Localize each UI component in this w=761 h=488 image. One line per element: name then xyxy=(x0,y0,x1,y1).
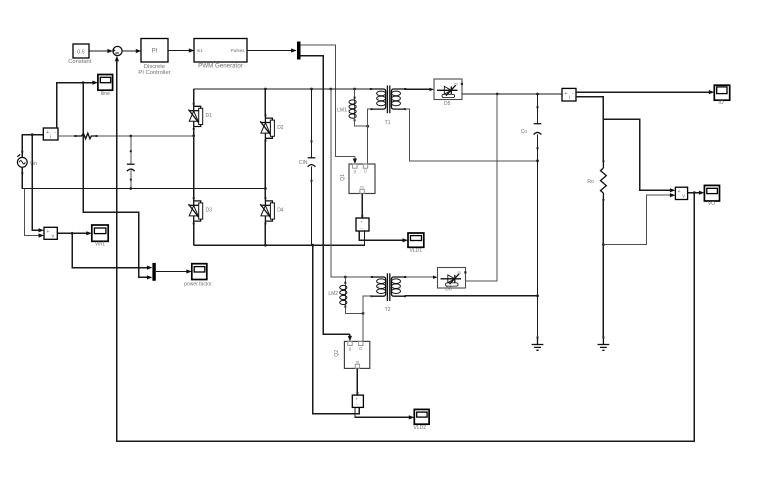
wire constant to sum xyxy=(89,49,113,53)
node D4 bottom xyxy=(264,244,267,247)
wire v+ output to scope Vin1 xyxy=(57,231,92,235)
svg-text:m: m xyxy=(454,81,458,86)
svg-text:D1: D1 xyxy=(206,113,213,119)
wire D5 output rail to Io measure xyxy=(462,93,562,95)
wire gate2: demux to Q2 gate xyxy=(301,56,353,342)
diode D3 xyxy=(189,197,213,224)
transformer T2 xyxy=(370,273,406,313)
svg-text:--: -- xyxy=(360,226,363,231)
bridge left leg wires xyxy=(193,89,195,245)
wire PWM to demux xyxy=(247,48,297,52)
bridge top rail xyxy=(194,88,371,90)
node LM2 return join xyxy=(362,312,365,315)
scope VDS2 xyxy=(414,409,430,430)
svg-text:Co: Co xyxy=(521,129,528,135)
svg-text:T2: T2 xyxy=(385,307,391,313)
svg-text:-: - xyxy=(54,130,56,136)
node filter-cap bottom on middle rail xyxy=(129,187,132,190)
node LM2 tap xyxy=(344,276,347,279)
node LM1 top xyxy=(353,88,356,91)
svg-text:VLD2: VLD2 xyxy=(414,425,427,431)
svg-text:Q2: Q2 xyxy=(334,350,340,357)
wire Io signal to scope IO xyxy=(576,90,714,94)
svg-text:IO: IO xyxy=(718,100,723,106)
svg-text:Ro: Ro xyxy=(587,179,594,185)
ground (secondary return) xyxy=(532,337,544,351)
wire T1 secondary top to D5 xyxy=(406,88,434,91)
svg-text:0.5: 0.5 xyxy=(77,50,85,56)
svg-text:Vin: Vin xyxy=(30,161,37,167)
middle rail (source return to D2/D4) xyxy=(24,188,265,190)
series resistor R xyxy=(74,133,97,139)
bridge bottom rail xyxy=(194,231,365,245)
inductor LM1 xyxy=(337,89,368,126)
wire source bottom to middle rail xyxy=(22,167,24,188)
scope Iline xyxy=(98,75,113,97)
wire Vo output to scope VO xyxy=(688,191,705,195)
svg-text:In1: In1 xyxy=(197,48,204,53)
inductor LM2 xyxy=(328,277,363,313)
wire T2 primary bottom to Q2 drain xyxy=(363,296,372,341)
wire gate1: demux to Q1 gate xyxy=(301,45,358,164)
node T2 feed xyxy=(329,88,332,91)
node D1/D3 midpoint xyxy=(192,134,195,137)
v+ voltage measurement block Vin1 xyxy=(44,227,57,239)
constant block "0.5" Constant xyxy=(68,44,92,65)
mux bar (power factor) xyxy=(152,263,155,281)
wire resistor to bridge left-leg node xyxy=(97,135,194,137)
op block PI (Discrete PI Controller) xyxy=(138,39,170,76)
MOSFET block Q1 xyxy=(340,164,375,194)
scope VDS1 xyxy=(408,233,424,254)
svg-text:PI Controller: PI Controller xyxy=(138,70,170,76)
node T1 return join xyxy=(536,159,539,162)
wire tap to Vo minus xyxy=(603,193,675,245)
svg-text:Iline: Iline xyxy=(101,91,110,97)
wire T2 feed from top rail xyxy=(331,89,372,277)
wire source top to i+ input xyxy=(22,135,43,158)
filter capacitor across input xyxy=(127,136,135,189)
svg-text:m: m xyxy=(356,360,360,365)
capacitor Co xyxy=(521,94,542,296)
wire bottom-rail extension down to Q2 measure xyxy=(313,245,360,414)
svg-text:+: + xyxy=(46,130,49,136)
wire feedback Vo to sum xyxy=(115,56,695,442)
svg-text:i: i xyxy=(50,135,51,141)
svg-text:v: v xyxy=(682,194,685,200)
wire branch to v+ (-) input xyxy=(24,189,44,238)
svg-text:D4: D4 xyxy=(277,208,284,214)
svg-text:CIN: CIN xyxy=(299,160,308,166)
svg-text:+: + xyxy=(46,229,49,235)
wire Ro bottom down to ground xyxy=(602,200,604,338)
diode D1 xyxy=(189,103,213,130)
wire block1 to scope VDS1 xyxy=(359,231,408,242)
scope Vin1 xyxy=(92,225,108,248)
wire tap to Vo plus xyxy=(603,119,675,192)
node D6 return xyxy=(496,93,499,96)
svg-text:v: v xyxy=(52,234,55,240)
wire T1 primary bottom to Q1 drain xyxy=(368,109,372,164)
node CIN top xyxy=(310,88,313,91)
wire Io minus to Ro top xyxy=(576,97,603,161)
svg-text:Vin1: Vin1 xyxy=(95,242,105,248)
svg-text:+: + xyxy=(356,397,359,402)
svg-text:D: D xyxy=(364,169,367,174)
resistor Ro xyxy=(587,160,606,201)
svg-text:power factor: power factor xyxy=(184,281,212,287)
svg-text:Pulses: Pulses xyxy=(231,48,245,53)
svg-text:PI: PI xyxy=(152,49,158,55)
AC source Vin xyxy=(17,151,37,174)
svg-text:+: + xyxy=(360,220,363,225)
node D2 top xyxy=(264,88,267,91)
svg-text:D5: D5 xyxy=(444,101,451,107)
svg-text:D6: D6 xyxy=(445,287,452,293)
svg-text:D3: D3 xyxy=(206,208,213,214)
PWM Generator block xyxy=(194,39,247,70)
node bottom-rail branch xyxy=(311,244,314,247)
svg-text:-: - xyxy=(572,91,574,97)
svg-text:+: + xyxy=(564,91,567,97)
capacitor CIN xyxy=(299,89,316,245)
wire T1 secondary bottom return xyxy=(405,109,537,161)
node LM1 return join xyxy=(366,125,369,128)
i+ current measurement block Io xyxy=(562,88,576,101)
svg-text:+: + xyxy=(677,189,680,195)
sum junction (circle with + -) xyxy=(113,46,123,55)
demux bar (pulse splitter) xyxy=(297,42,301,60)
svg-text:i: i xyxy=(569,95,570,101)
svg-text:VO: VO xyxy=(708,201,715,207)
diode D4 xyxy=(260,197,284,224)
svg-text:VLD1: VLD1 xyxy=(410,248,423,254)
wire branch to v+ (+) input xyxy=(32,135,44,233)
diode block D5 xyxy=(434,79,463,107)
diode block D6 xyxy=(438,268,467,293)
wire Q1 m to measure block1 xyxy=(361,194,363,219)
wire i+ signal to scope Iline xyxy=(57,81,98,129)
wire branch current signal to mux xyxy=(83,83,152,280)
wire v+ branch to mux top input xyxy=(72,233,152,269)
wire sum to PI xyxy=(122,49,141,53)
transformer T1 xyxy=(370,86,407,126)
svg-text:D: D xyxy=(359,346,362,351)
wire Q2 m to measure block2 xyxy=(356,368,358,395)
node: branch to Vin1 + input xyxy=(31,133,34,136)
wire PI to PWM xyxy=(168,48,194,52)
wire block2 to scope VDS2 xyxy=(355,407,414,419)
node Vo minus tap xyxy=(602,243,605,246)
svg-text:LM2: LM2 xyxy=(328,291,338,297)
svg-text:--: -- xyxy=(356,402,359,407)
wire T2 secondary bottom return xyxy=(405,295,537,297)
scope IO xyxy=(714,85,729,106)
node filter-cap top xyxy=(129,135,132,138)
scope power factor xyxy=(184,264,212,288)
wire D6 output up to rail xyxy=(466,94,498,281)
svg-text:T1: T1 xyxy=(385,120,391,126)
measure block1 (below Q1) xyxy=(356,218,369,231)
ground (load return) xyxy=(598,337,610,351)
bridge right leg wires xyxy=(264,89,266,245)
scope VO xyxy=(704,185,719,207)
node Co top xyxy=(536,93,539,96)
wire Co bottom to ground xyxy=(537,296,539,338)
node T2 return join xyxy=(536,294,539,297)
v+ voltage measurement block Vo xyxy=(675,187,687,199)
MOSFET block Q2 xyxy=(334,341,370,368)
svg-text:m: m xyxy=(458,270,462,275)
wire i+ output to series resistor xyxy=(58,135,75,137)
wire mux to power factor scope xyxy=(156,269,192,273)
svg-text:m: m xyxy=(360,185,364,190)
svg-text:LM1: LM1 xyxy=(337,107,347,113)
node D2/D4 midpoint xyxy=(264,187,267,190)
i+ current measurement block (input current) xyxy=(43,128,58,141)
diode D2 xyxy=(260,114,284,141)
wire T2 secondary top to D6 xyxy=(406,276,437,279)
svg-text:Constant: Constant xyxy=(68,59,92,65)
svg-text:PWM Generator: PWM Generator xyxy=(198,62,243,69)
measure block2 (below Q2) xyxy=(352,395,363,407)
svg-text:D2: D2 xyxy=(277,125,284,131)
svg-text:Q1: Q1 xyxy=(340,174,346,181)
